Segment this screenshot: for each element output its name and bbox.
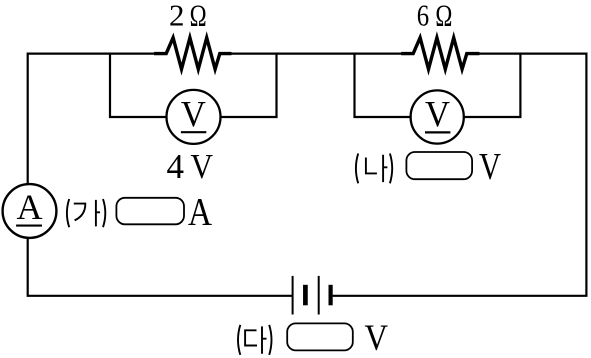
label V after box 2	[479, 146, 501, 188]
voltmeter U2 underline	[425, 131, 450, 133]
label (da) close paren	[269, 325, 271, 355]
wire top-left segment with left wire upper part	[28, 54, 155, 186]
wire top-middle segment	[231, 52, 402, 54]
blank box 1	[116, 198, 184, 225]
wire top-right segment, right side, bottom-right segment	[333, 54, 587, 296]
battery B1 plate short thick 2	[329, 285, 333, 306]
resistor R1	[154, 38, 232, 69]
voltmeter U1 underline	[181, 131, 206, 133]
label (da) hangul a-vowel	[262, 326, 267, 353]
label 6 ohm	[417, 0, 453, 33]
wire voltmeter V2 left branch	[355, 53, 412, 118]
label 2 ohm	[169, 0, 207, 33]
svg-text:Ω: Ω	[190, 0, 207, 33]
label 4 V	[167, 147, 213, 186]
svg-text:2: 2	[169, 0, 185, 33]
svg-text:V: V	[479, 146, 501, 188]
battery B1 plate long 2	[318, 276, 320, 315]
label A after box 1	[188, 190, 213, 234]
blank box 2	[406, 152, 472, 179]
wire voltmeter V1 right branch	[220, 53, 277, 118]
label (ga) hangul giyeok	[74, 204, 86, 221]
label (na) open paren	[356, 154, 358, 184]
wire voltmeter V1 left branch	[110, 53, 168, 118]
voltmeter U2 circle	[411, 90, 464, 143]
svg-text:V: V	[425, 95, 450, 136]
label V after box 3	[365, 318, 389, 358]
wire left lower + bottom-left segment	[28, 237, 293, 296]
battery B1 plate short thick 1	[303, 285, 308, 306]
blank box 3	[287, 323, 353, 350]
resistor R2	[401, 38, 479, 69]
svg-text:V: V	[365, 318, 389, 358]
svg-text:A: A	[17, 187, 43, 227]
voltmeter U1 letter V	[181, 95, 206, 136]
svg-text:Ω: Ω	[435, 0, 452, 33]
voltmeter U2 letter V	[425, 95, 450, 136]
label (ga) open paren	[67, 199, 69, 227]
ammeter letter A	[17, 187, 43, 227]
label (ga) close paren	[103, 199, 105, 227]
svg-text:A: A	[188, 190, 213, 234]
svg-text:4: 4	[167, 147, 185, 186]
ammeter U3 circle	[3, 184, 57, 238]
label (da) hangul digeut	[245, 330, 257, 345]
label (na) hangul nieun	[366, 158, 377, 174]
label (na) close paren	[390, 154, 392, 184]
battery B1 plate long 1	[292, 276, 294, 315]
voltmeter U1 circle	[167, 90, 221, 144]
label (na) hangul a-vowel	[383, 155, 387, 182]
wire voltmeter V2 right branch	[463, 53, 521, 118]
svg-text:V: V	[190, 147, 213, 186]
svg-text:6: 6	[417, 0, 429, 33]
ammeter underline	[16, 225, 42, 227]
label (ga) hangul a-vowel	[96, 200, 100, 227]
svg-text:V: V	[181, 95, 206, 136]
label (da) open paren	[238, 325, 240, 355]
